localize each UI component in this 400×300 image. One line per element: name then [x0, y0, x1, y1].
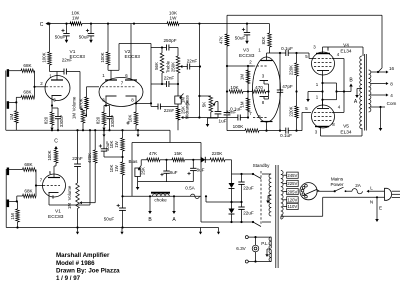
- V1b cathode: [49, 192, 59, 194]
- capacitor 22nF (mid feed): [151, 106, 158, 108]
- voltage selector taps: [283, 174, 287, 176]
- svg-text:1M: 1M: [72, 113, 77, 119]
- capacitor 47pF (across grids): [279, 53, 281, 90]
- L wire: [369, 190, 374, 192]
- wire selector to switch: [317, 190, 335, 192]
- tube V5 EL34 envelope: [312, 105, 335, 128]
- svg-text:V5: V5: [343, 124, 349, 130]
- PL terminal top: [245, 236, 248, 239]
- svg-text:V1: V1: [55, 209, 61, 215]
- junction 22nF ch2: [76, 129, 78, 131]
- pilot lamp: [255, 237, 257, 245]
- svg-text:22nF: 22nF: [164, 108, 175, 113]
- ground bus preamp: [6, 129, 170, 131]
- V2a cathode: [106, 95, 117, 97]
- junction V5 cathode: [321, 99, 323, 101]
- svg-text:N: N: [370, 200, 373, 205]
- junction V2b cathode node: [135, 102, 137, 104]
- voltage selector: [300, 183, 317, 200]
- junction rect mid1: [230, 201, 232, 203]
- svg-text:E: E: [379, 206, 382, 211]
- svg-text:330uF: 330uF: [59, 114, 64, 127]
- presence wiper arrow: [213, 102, 216, 106]
- svg-text:220K: 220K: [288, 106, 293, 116]
- svg-text:Mains: Mains: [331, 177, 344, 182]
- svg-text:EL34: EL34: [340, 130, 352, 136]
- svg-text:220K: 220K: [288, 65, 293, 75]
- junction gnd 330uF V1: [57, 129, 59, 131]
- bias pot bottom: [137, 177, 139, 182]
- svg-text:choke: choke: [154, 198, 167, 203]
- junction 220K2 bottom: [295, 130, 297, 132]
- bias pot wiper: [140, 160, 142, 166]
- heater CT ground: [267, 248, 271, 250]
- node A arrow (OT centre tap): [357, 88, 362, 90]
- mains switch: [334, 190, 336, 192]
- svg-text:15K: 15K: [174, 151, 183, 156]
- power transformer heater winding: [269, 237, 271, 241]
- svg-text:8uF: 8uF: [170, 170, 178, 175]
- wire CF cathode to tone stack: [136, 102, 151, 104]
- midrange wiper arrow: [182, 117, 185, 119]
- svg-text:6: 6: [258, 114, 261, 119]
- capacitor 22nF (V1a coupling): [63, 69, 65, 75]
- svg-text:225V: 225V: [287, 181, 297, 186]
- junction screen B: [343, 90, 345, 92]
- capacitor 8uF (bias 2): [192, 160, 194, 169]
- output transformer core: [363, 54, 365, 131]
- junction 50uF cap 1: [65, 23, 67, 25]
- svg-text:C: C: [54, 139, 58, 145]
- resistor 220K (V5 grid leak): [295, 106, 299, 118]
- ground arrow bias: [137, 182, 139, 187]
- svg-text:820: 820: [44, 116, 49, 124]
- svg-text:3: 3: [313, 45, 316, 50]
- resistor 56K: [161, 48, 163, 54]
- ground wire power tubes: [308, 91, 323, 93]
- junction 8uF1: [165, 159, 167, 161]
- svg-text:100K: 100K: [100, 52, 105, 62]
- junction E: [376, 196, 378, 198]
- resistor 10K 1W (dropper 3): [122, 130, 124, 138]
- svg-text:1W: 1W: [72, 16, 80, 21]
- junction V2a plate resistor: [107, 23, 109, 25]
- svg-text:P.L.: P.L.: [261, 241, 269, 246]
- junction 220K mid: [295, 90, 297, 92]
- svg-text:100K: 100K: [47, 150, 52, 160]
- NFB riser: [381, 15, 383, 68]
- wire mid wiper to PI: [184, 117, 200, 119]
- V2a plate: [105, 79, 117, 81]
- rectifier top wire: [232, 173, 254, 175]
- wire V5 plate bottom: [321, 135, 363, 137]
- input jack 3 tip contact: [7, 168, 9, 176]
- E ground: [376, 197, 378, 214]
- svg-text:47K: 47K: [149, 151, 158, 156]
- svg-text:2: 2: [249, 60, 252, 65]
- svg-text:Com: Com: [387, 101, 397, 106]
- V3 plate1: [261, 60, 273, 62]
- svg-text:1uF: 1uF: [219, 119, 227, 124]
- V4 grids dashed: [314, 58, 332, 60]
- standby link dashed: [260, 171, 262, 224]
- resistor 1M (input load): [15, 102, 17, 110]
- wire to V3 grid1: [227, 65, 253, 67]
- svg-text:Standby: Standby: [253, 163, 271, 168]
- V3 plate2: [261, 121, 273, 123]
- svg-text:1M: 1M: [240, 101, 245, 107]
- svg-text:1: 1: [102, 73, 105, 78]
- svg-text:1M: 1M: [67, 203, 72, 209]
- svg-text:68K: 68K: [23, 90, 32, 95]
- wire V3 grid rail: [247, 66, 249, 118]
- HT centre tap ground: [268, 195, 271, 197]
- wire grid node down: [226, 66, 228, 92]
- wire tail to cathode rail: [243, 91, 248, 93]
- B+ rail: [123, 195, 202, 197]
- svg-text:7: 7: [121, 81, 124, 86]
- wire cathode rail: [322, 83, 324, 106]
- svg-text:50uF: 50uF: [105, 141, 110, 151]
- capacitor 330uF (V2a bypass): [106, 105, 110, 107]
- capacitor 0.1uF (to V5): [259, 130, 286, 132]
- V2b grid dashed: [117, 86, 136, 88]
- gnd arrow 1: [77, 228, 79, 232]
- ground arrow presence: [207, 118, 209, 124]
- svg-text:2: 2: [40, 81, 43, 86]
- svg-text:V4: V4: [343, 43, 349, 49]
- resistor 68K (input 3): [23, 168, 37, 172]
- svg-text:82K: 82K: [261, 37, 266, 45]
- mains plug: [385, 188, 392, 200]
- svg-text:8: 8: [131, 98, 134, 103]
- svg-text:820: 820: [96, 116, 101, 124]
- junction 47pF bottom: [279, 130, 281, 132]
- svg-text:1W: 1W: [114, 140, 119, 147]
- junction 50uF cap 3: [246, 23, 248, 25]
- junction vol2 gnd: [76, 226, 78, 228]
- junction grid rail mid: [247, 90, 249, 92]
- svg-text:470K: 470K: [78, 98, 83, 108]
- svg-text:4: 4: [390, 93, 393, 98]
- wire NFB top: [227, 14, 382, 16]
- junction tie mid: [335, 90, 337, 92]
- svg-text:22uF: 22uF: [243, 211, 254, 216]
- wire grid1 stub: [248, 65, 253, 67]
- junction 470K ch2: [94, 129, 96, 131]
- junction 470 right: [267, 90, 269, 92]
- junction 68K to grid ch2: [35, 184, 37, 186]
- resistor 10K 1W (bus dropper 1): [70, 22, 82, 26]
- junction gnd midrange: [177, 129, 179, 131]
- OT tap 8: [371, 83, 378, 85]
- resistor 100K (V1a plate load): [49, 24, 51, 52]
- svg-text:110V: 110V: [288, 204, 298, 209]
- svg-text:100K: 100K: [41, 52, 46, 62]
- svg-text:1M: 1M: [10, 213, 15, 220]
- svg-text:220K: 220K: [212, 151, 224, 156]
- PL wires: [248, 236, 271, 238]
- power transformer core: [275, 165, 277, 268]
- capacitor 22nF (ch2 coupling): [77, 130, 79, 164]
- V4 pin4 stub: [332, 58, 344, 60]
- junction V1a plate resistor: [48, 23, 50, 25]
- svg-text:22nF: 22nF: [62, 58, 73, 63]
- junction jack2/1M: [15, 101, 17, 103]
- wire selector common: [322, 197, 324, 216]
- V1b grid dashed: [43, 185, 60, 187]
- wire vol2 wiper: [83, 202, 95, 204]
- volume2 wiper arrow: [82, 202, 83, 204]
- capacitor 0.1uF (to V4): [285, 50, 287, 56]
- tube V2 ECC83 envelope: [99, 78, 143, 107]
- power transformer primary winding: [281, 171, 283, 175]
- bottom ground bus: [6, 227, 218, 229]
- junction PL top: [254, 236, 256, 238]
- resistor 1M (V3 grid2): [246, 98, 250, 112]
- diode rectifier 2: [231, 202, 233, 209]
- potentiometer Treble 250K: [177, 48, 179, 57]
- capacitor 330uF (V1a bypass): [52, 107, 58, 109]
- svg-text:C: C: [40, 22, 44, 28]
- svg-text:50uF: 50uF: [79, 34, 90, 39]
- svg-text:Volume: Volume: [72, 96, 77, 111]
- V2b plate: [125, 79, 137, 81]
- resistor 68K (input 1): [21, 69, 35, 73]
- svg-text:10K: 10K: [230, 85, 239, 90]
- wire 250pF row: [151, 47, 167, 49]
- wire coupling to volume: [66, 71, 80, 73]
- junction 50uF tap: [121, 156, 123, 158]
- svg-text:470K: 470K: [87, 153, 92, 163]
- potentiometer Volume 1M (channel 2): [76, 183, 80, 209]
- V4 g3 tie: [323, 82, 337, 84]
- wire bus right: [179, 23, 270, 25]
- resistor 100K (V1b plate load): [54, 150, 58, 163]
- svg-text:47K: 47K: [219, 36, 224, 44]
- screen rail: [343, 59, 345, 113]
- svg-text:25K: 25K: [180, 106, 185, 114]
- junction 47pF top: [279, 52, 281, 54]
- junction 68K to grid: [33, 86, 35, 88]
- junction 8uF2: [192, 159, 194, 161]
- junction 1M ch2 gnd: [16, 226, 18, 228]
- junction 56K bottom: [161, 83, 163, 85]
- gnd arrow 2: [121, 228, 123, 232]
- node C arrow (V1b supply): [55, 149, 57, 150]
- resistor 100K (feedback): [227, 130, 245, 132]
- tube V4 EL34 envelope: [312, 52, 335, 75]
- bias ground wire: [138, 181, 194, 183]
- svg-text:7: 7: [40, 178, 43, 183]
- output transformer secondary coil: [369, 70, 371, 74]
- V3 grid1 dashed: [253, 65, 267, 67]
- V1b plate: [48, 177, 60, 179]
- svg-text:L: L: [370, 186, 373, 191]
- capacitor 8uF (bias 1): [166, 160, 168, 171]
- resistor 470K (V2a grid): [86, 90, 88, 97]
- PS bottom rail: [201, 221, 253, 223]
- svg-text:A: A: [172, 217, 176, 223]
- V3 cathode2: [260, 96, 269, 98]
- V4 cathode: [317, 70, 329, 72]
- svg-text:56K: 56K: [154, 62, 159, 70]
- svg-text:1: 1: [316, 95, 319, 100]
- svg-text:22uF: 22uF: [243, 186, 254, 191]
- wire to V1b grid: [36, 185, 43, 187]
- capacitor 50uF (filter 1): [61, 30, 64, 32]
- resistor 47K (PI tail feed): [225, 34, 229, 46]
- wire 47K-15K: [160, 159, 172, 161]
- svg-text:4: 4: [338, 105, 341, 110]
- svg-text:Marshall Amplifier: Marshall Amplifier: [56, 252, 110, 259]
- svg-text:50uF: 50uF: [235, 36, 246, 41]
- V2b cathode: [126, 95, 137, 97]
- standby switch top: [252, 173, 254, 175]
- junction gnd volume1: [82, 129, 84, 131]
- svg-text:47pF: 47pF: [282, 84, 293, 89]
- wire NFB corner: [226, 15, 228, 34]
- V3 grid2 dashed: [253, 117, 267, 119]
- svg-text:1W: 1W: [170, 16, 178, 21]
- svg-text:ECC83: ECC83: [125, 54, 141, 60]
- svg-text:Drawn By: Joe Piazza: Drawn By: Joe Piazza: [56, 267, 120, 274]
- svg-text:470: 470: [255, 85, 263, 90]
- svg-text:22nF: 22nF: [164, 76, 175, 81]
- svg-text:8: 8: [332, 122, 335, 127]
- junction gnd 10K CF: [137, 129, 139, 131]
- wire switch to fuse: [346, 190, 353, 192]
- tube V3 ECC83 envelope: [253, 57, 281, 122]
- treble wiper arrow: [182, 66, 183, 68]
- svg-text:Model # 1986: Model # 1986: [56, 260, 95, 267]
- ground jog: [169, 130, 171, 142]
- capacitor 22uF (rect 1): [241, 174, 243, 182]
- V3 cathode1: [260, 80, 269, 82]
- resistor 10K 1W (bus dropper 2): [167, 22, 179, 26]
- tube V1a ECC83 envelope: [45, 76, 70, 101]
- V1a cathode: [52, 95, 62, 97]
- capacitor 22nF (bass): [151, 83, 167, 85]
- svg-text:245V: 245V: [287, 173, 297, 178]
- svg-text:A: A: [354, 99, 358, 105]
- svg-text:16: 16: [389, 66, 395, 71]
- svg-text:8: 8: [390, 82, 393, 87]
- svg-text:68K: 68K: [24, 162, 33, 167]
- svg-text:68K: 68K: [24, 188, 33, 193]
- V5 grids dashed: [314, 111, 332, 113]
- wire B+ bus y=23.6: [50, 23, 74, 25]
- wire 220K corner: [231, 160, 233, 174]
- OT tap 4: [371, 94, 378, 96]
- svg-text:10K: 10K: [128, 115, 133, 123]
- wire tie to screen rail: [337, 91, 345, 93]
- choke: [151, 192, 170, 194]
- potentiometer Bass 1M: [177, 84, 179, 96]
- gnd arrow 4: [218, 228, 220, 232]
- power transformer HT winding: [269, 174, 271, 178]
- svg-text:4: 4: [337, 52, 340, 57]
- wire jack ground left ch2: [5, 169, 7, 228]
- capacitor 22nF (PI input): [237, 115, 239, 121]
- junction rail200 tone: [199, 65, 201, 67]
- svg-text:1: 1: [49, 74, 52, 79]
- capacitor 50uF (C node filter): [103, 130, 105, 149]
- resistor 68K (input 4): [23, 194, 37, 198]
- V5 cathode: [317, 108, 329, 110]
- wire 68K join vertical ch2: [35, 170, 37, 197]
- junction grid rail bot: [247, 116, 249, 118]
- wire 250pF to treble pot: [169, 47, 178, 49]
- capacitor 50uF (filter 3, V3 supply): [242, 29, 245, 31]
- junction rect mid2: [240, 201, 242, 203]
- input jack 1 tip contact: [7, 69, 9, 77]
- svg-text:B: B: [349, 78, 353, 84]
- svg-text:0.5A: 0.5A: [185, 185, 195, 190]
- svg-text:22nF: 22nF: [187, 59, 198, 64]
- resistor 10K 1W (dropper 4): [121, 162, 125, 175]
- svg-text:8uF: 8uF: [197, 168, 205, 173]
- svg-text:0.1uF: 0.1uF: [281, 46, 293, 51]
- svg-text:250K: 250K: [170, 62, 175, 72]
- fuse 2A: [352, 189, 362, 194]
- wire jack2 to 68K: [9, 101, 16, 103]
- junction PL bottom: [254, 260, 256, 262]
- wire rect feed: [205, 196, 207, 202]
- svg-text:5K: 5K: [201, 102, 206, 107]
- wire jack1 to 68K: [9, 70, 21, 72]
- svg-text:250pF: 250pF: [163, 38, 176, 43]
- svg-text:100K: 100K: [233, 124, 245, 129]
- resistor 10K (cathode follower): [135, 103, 137, 112]
- junction V1a cathode node: [51, 104, 53, 106]
- junction PI grid node: [226, 65, 228, 67]
- svg-text:68K: 68K: [23, 63, 32, 68]
- capacitor 22uF (rect 2): [241, 202, 243, 207]
- capacitor 1uF (presence): [216, 101, 218, 103]
- wire jack ground left: [5, 71, 7, 131]
- svg-text:ECC83: ECC83: [48, 214, 64, 220]
- junction grid rail top: [247, 65, 249, 67]
- junction gnd 330uF V2: [108, 129, 110, 131]
- potentiometer Volume 1M (channel 1): [81, 109, 85, 123]
- wire tone rail: [150, 48, 152, 107]
- junction rail bottom: [198, 116, 200, 118]
- svg-text:1: 1: [258, 48, 261, 53]
- resistor 10K (PI tail): [229, 90, 243, 94]
- svg-text:6: 6: [125, 73, 128, 78]
- svg-text:205V: 205V: [287, 189, 297, 194]
- svg-text:Volume: Volume: [67, 185, 72, 200]
- junction V4 cathode: [321, 82, 323, 84]
- wire presence bottom: [208, 117, 219, 119]
- junction B rail: [121, 195, 123, 197]
- junction ps1: [230, 221, 232, 223]
- bias feed wire: [141, 159, 147, 161]
- svg-text:3: 3: [315, 130, 318, 135]
- V1b cathode return: [49, 204, 90, 206]
- svg-text:EL34: EL34: [340, 49, 352, 55]
- input jack 4 tip contact: [7, 200, 9, 208]
- potentiometer 5K presence: [209, 96, 213, 112]
- wire V2a plate to tone: [108, 69, 119, 71]
- wire plate to coupling cap: [50, 71, 65, 73]
- svg-text:B: B: [148, 217, 152, 223]
- resistor 1M (V3 grid1): [246, 70, 250, 84]
- junction gnd 820 V2: [103, 129, 105, 131]
- OT tap 16: [371, 71, 378, 73]
- node A arrow (supply): [173, 195, 175, 197]
